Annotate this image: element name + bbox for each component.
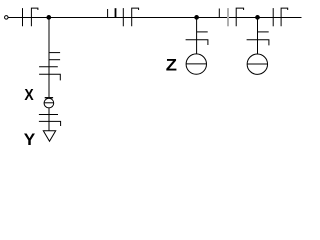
capacitor C7 plate with side hook: [186, 40, 208, 45]
wire main bus: [8, 17, 301, 19]
svg-text:Z: Z: [166, 56, 177, 75]
capacitor C6 plate 2 with side hook: [39, 121, 61, 126]
capacitor C4 plate 2 with top hook: [281, 8, 288, 26]
source V2 diameter line: [247, 63, 267, 65]
switch SW diameter line: [44, 102, 54, 104]
capacitor C2 tick 1: [107, 9, 109, 17]
capacitor C2 plate 2 with top hook: [132, 8, 139, 26]
wire branch 1 vertical lower: [48, 108, 50, 131]
switch SW top bar: [45, 97, 53, 99]
capacitor C1 plate 2 with top hook: [31, 8, 38, 26]
capacitor C8 plate with side hook: [247, 40, 269, 46]
capacitor C3 plate 2 with top hook: [236, 8, 243, 26]
svg-text:Y: Y: [24, 130, 36, 149]
source V1 diameter line: [186, 63, 206, 65]
wire branch 2 vertical: [196, 17, 198, 54]
capacitor C5 tick 1: [49, 52, 60, 54]
capacitor C5 plate 1: [39, 66, 58, 68]
node N3 junction dot: [255, 15, 260, 20]
node N1 junction dot: [46, 15, 51, 20]
capacitor C3 tick: [218, 9, 220, 18]
node N2 junction dot: [194, 15, 199, 20]
capacitor C1 plate 1: [22, 8, 24, 26]
switch SW circle: [44, 98, 54, 108]
source V1 circle: [186, 54, 206, 74]
capacitor C3 plate 1 (gray): [227, 8, 229, 26]
wire branch 3 vertical: [257, 17, 259, 54]
capacitor C4 plate 1: [272, 8, 274, 26]
capacitor C7 tick: [197, 31, 208, 33]
capacitor C5 plate 2 with side hook: [39, 74, 60, 80]
source V2 circle: [247, 54, 267, 74]
ground: [43, 131, 55, 142]
capacitor C6 plate 1: [39, 114, 58, 116]
terminal (open circle): [5, 16, 9, 20]
capacitor C2 tick 2 (bold): [115, 8, 117, 17]
capacitor C2 plate 1: [122, 8, 124, 26]
svg-text:X: X: [24, 87, 34, 104]
capacitor C8 tick: [258, 31, 269, 33]
capacitor C5 tick 2: [49, 59, 60, 61]
wire branch 1 vertical upper: [48, 17, 50, 97]
